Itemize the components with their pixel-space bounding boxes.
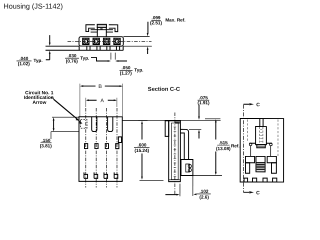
end view: keyway box	[256, 127, 267, 145]
svg-text:Typ.: Typ.	[34, 58, 43, 63]
svg-text:.050: .050	[122, 65, 131, 70]
top view: contact 1	[83, 38, 89, 44]
dim .099 arrow down	[147, 22, 149, 34]
svg-text:Housing (JS-1142): Housing (JS-1142)	[4, 2, 63, 11]
svg-text:(1.91): (1.91)	[197, 100, 209, 105]
end view: keyway inner ticks	[260, 130, 262, 142]
side view: catch bumps	[188, 165, 191, 168]
top view: latch leg right	[105, 28, 107, 37]
end view: left leg	[245, 163, 249, 174]
svg-text:Section C-C: Section C-C	[148, 87, 180, 93]
dim .102 right arrow	[193, 193, 196, 195]
bottom view: body outline	[79, 117, 122, 182]
circuit no.1 leader 2	[53, 99, 81, 123]
title	[4, 2, 63, 11]
top view: comb side left	[78, 46, 80, 50]
side view: foot inner line	[169, 179, 181, 181]
dim .050 label	[120, 65, 144, 75]
dim .515 ext line top	[205, 118, 220, 120]
bottom view: slot 1	[92, 117, 97, 132]
bottom view: middle windows	[84, 144, 87, 149]
svg-text:.150: .150	[42, 138, 51, 143]
bottom view: slot 2	[108, 117, 113, 132]
top view: right ext line top	[123, 35, 149, 37]
svg-text:.040: .040	[19, 56, 28, 61]
end view: window center	[256, 156, 265, 162]
end view: window left	[245, 156, 254, 162]
side view: body outline	[169, 121, 181, 182]
bottom view: right edge window	[118, 137, 121, 143]
dim .150 label	[40, 138, 52, 148]
dim .515 dimension line	[215, 121, 217, 173]
end view: right leg	[271, 163, 276, 174]
section C-C title	[148, 87, 180, 93]
bottom view: centerline c1	[85, 108, 87, 187]
end view: cross bar line	[249, 142, 272, 144]
top view: latch lower line left	[91, 31, 98, 33]
svg-text:C: C	[256, 190, 260, 196]
side view: inner hatch	[174, 127, 177, 177]
top view: comb post 4	[116, 46, 119, 50]
dim .040 label	[18, 56, 43, 66]
svg-text:(2.51): (2.51)	[150, 20, 162, 25]
side view: top reference line	[138, 119, 220, 121]
dim .075 arrow up	[198, 133, 200, 139]
top view: centerline	[68, 40, 152, 42]
dim .150 dimension line	[53, 119, 55, 130]
dim .600 label	[135, 142, 150, 153]
circuit no.1 callout text	[24, 90, 54, 106]
bottom view: bottom windows	[84, 172, 118, 178]
side view: latch arm inner	[180, 133, 184, 160]
dim .600 ext bottom	[139, 179, 163, 181]
end view: bottom notches	[244, 178, 248, 182]
side view: catch box	[181, 160, 193, 176]
dim .075 arrow down	[198, 105, 200, 117]
end view: keyway bottom block	[257, 145, 266, 148]
end view: inner dashed walls	[247, 120, 249, 143]
circuit no.1 leader 1	[51, 97, 78, 120]
top view: latch left hook	[86, 25, 95, 32]
top view: latch right hook	[109, 25, 118, 32]
top view: contact 2	[93, 38, 99, 44]
dim .075 label	[197, 95, 209, 105]
dim .030 label	[66, 53, 90, 63]
svg-text:Ref.: Ref.	[231, 143, 240, 148]
svg-text:C: C	[256, 102, 260, 108]
top view: housing body	[79, 37, 123, 46]
svg-text:.030: .030	[68, 53, 77, 58]
end view: section cut line	[242, 105, 244, 193]
top view: latch leg left	[96, 28, 98, 37]
svg-text:(1.27): (1.27)	[120, 71, 132, 76]
svg-text:Arrow: Arrow	[32, 100, 46, 106]
end view: window right	[267, 156, 276, 162]
side view: wire block	[165, 121, 169, 137]
bottom view: centerline c3	[106, 108, 108, 188]
dim .102 label	[199, 189, 209, 200]
side view: centerline	[174, 113, 176, 195]
svg-text:Max. Ref.: Max. Ref.	[165, 18, 185, 23]
bottom view: A dimension	[87, 99, 115, 101]
svg-text:(2.6): (2.6)	[199, 195, 209, 200]
top view: latch lower line right	[106, 31, 113, 33]
top view: lower comb line	[46, 49, 124, 51]
side view: catch detail rect	[186, 164, 190, 172]
bottom view: centerline c4	[116, 108, 118, 188]
end view: bar stems	[251, 146, 271, 157]
side view: crimp dark patch	[175, 122, 180, 124]
svg-text:Typ.: Typ.	[80, 56, 89, 61]
dim .102 left arrow	[165, 194, 177, 196]
top view: left cable line upper	[46, 45, 79, 47]
svg-text:.600: .600	[138, 142, 147, 147]
dim .150 leader	[50, 132, 52, 139]
end view: top C arrow	[244, 103, 250, 105]
svg-text:Typ.: Typ.	[134, 67, 143, 72]
top view: comb post 3	[107, 46, 110, 50]
side view: latch arm outer	[180, 129, 188, 159]
svg-text:.102: .102	[199, 189, 208, 194]
top view: comb post 2	[97, 46, 100, 50]
dim .600 ext top	[122, 119, 147, 121]
end view: center hatched contact	[256, 163, 265, 172]
top view: comb post 1	[87, 46, 90, 50]
dim .050 arrow	[117, 60, 127, 62]
dim .600 dimension line	[141, 122, 143, 178]
svg-text:(13.08): (13.08)	[216, 146, 231, 151]
dim .150 ext lines	[51, 117, 79, 132]
top view: latch center ticks	[101, 28, 102, 30]
side view: inner column	[171, 123, 178, 180]
top view: comb side right	[122, 46, 124, 50]
dim .050 ext lines	[111, 53, 115, 60]
dim .099 arrow up	[147, 49, 149, 54]
bottom view: B dimension	[81, 85, 121, 87]
svg-text:(0.76): (0.76)	[66, 59, 78, 64]
svg-text:A: A	[100, 98, 104, 104]
end view: keyway inner dashed	[260, 127, 263, 144]
top view: right ext line bottom	[123, 45, 151, 47]
end view: keyway stems	[260, 119, 263, 127]
svg-text:(3.81): (3.81)	[40, 143, 52, 148]
end view: bottom C arrow	[243, 191, 249, 193]
dim .040 arrow down	[49, 35, 51, 43]
dim .075 ext line 2	[189, 128, 201, 130]
dim .099 label	[150, 15, 185, 25]
end view: outer body	[240, 119, 283, 183]
dim .102 ext lines	[179, 184, 181, 197]
svg-text:.515: .515	[219, 140, 228, 145]
dim .040 arrow up	[46, 53, 50, 60]
dim .030 leader arrow	[91, 58, 109, 61]
bottom view: circuit 1 dashed window	[81, 120, 87, 129]
svg-text:(15.24): (15.24)	[135, 148, 150, 153]
top view: contact 4	[114, 38, 120, 44]
bottom view: centerline c2	[95, 108, 97, 188]
dim .515 label	[216, 140, 240, 151]
end view: bar end hooks	[249, 143, 252, 146]
svg-text:(1.02): (1.02)	[18, 61, 30, 66]
top view: latch table line	[91, 29, 113, 31]
dim .515 ext line bottom	[181, 175, 222, 177]
top view: contact 3	[103, 38, 109, 44]
top view: latch button	[97, 24, 106, 27]
svg-text:B: B	[98, 84, 102, 90]
